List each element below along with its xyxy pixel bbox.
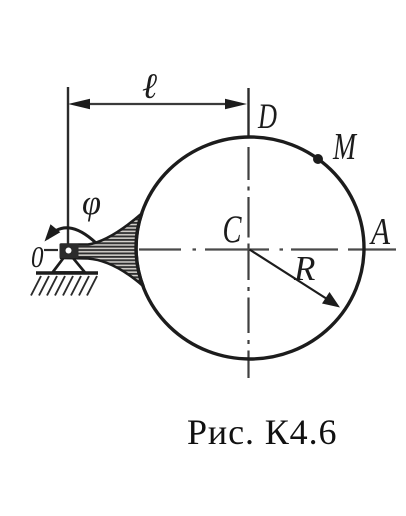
wire: left dimension boundary line through O (67, 87, 69, 247)
pivot support triangle (53, 252, 86, 273)
svg-text:R: R (293, 249, 315, 288)
circle (disk) (136, 137, 364, 359)
svg-text:Рис. К4.6: Рис. К4.6 (187, 412, 337, 452)
node A centerline: horizontal dash-dot through C (139, 248, 396, 250)
ground line (36, 271, 98, 274)
rotation arrowhead (45, 224, 61, 241)
svg-text:C: C (223, 208, 243, 251)
radius arrowhead (322, 292, 340, 308)
svg-text:ℓ: ℓ (142, 66, 157, 106)
point M dot (313, 154, 323, 164)
svg-text:A: A (369, 211, 391, 253)
svg-text:φ: φ (82, 183, 101, 222)
dimension arrow right (225, 99, 247, 109)
wire: vertical centerline solid top part above circle (247, 88, 249, 138)
link OC: hatched horn from pivot to circle (61, 213, 144, 287)
radius R arrow (250, 250, 328, 300)
svg-text:M: M (332, 126, 357, 168)
svg-text:0: 0 (31, 239, 44, 274)
dimension arrow left (68, 99, 90, 109)
rotation arrow phi (47, 228, 96, 243)
svg-text:D: D (257, 96, 277, 136)
pivot pin O (60, 244, 79, 259)
wire: short centerline stub at O (44, 249, 58, 251)
node D centerline: vertical dash-dot through C (247, 147, 249, 378)
dimension line l (76, 103, 240, 105)
ground hatching (31, 276, 97, 296)
